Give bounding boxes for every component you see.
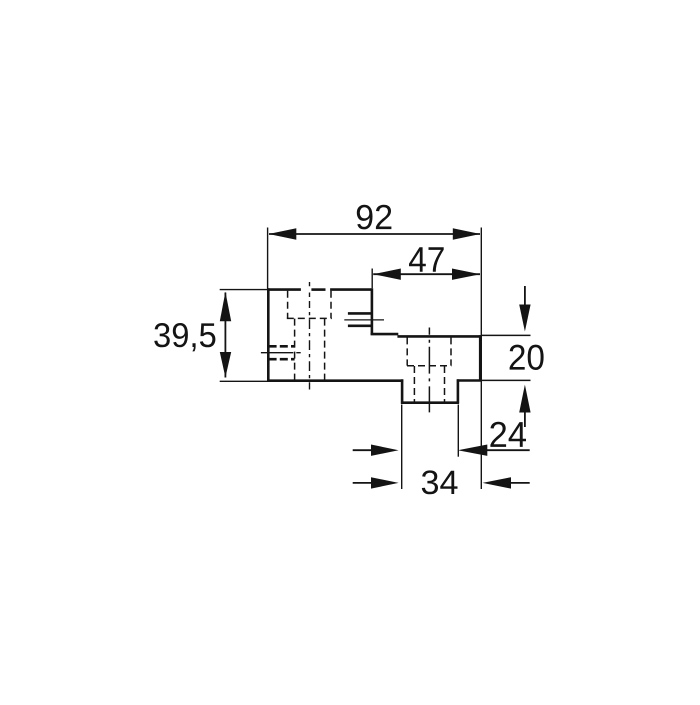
extension line left (92) <box>267 228 269 289</box>
label 20 <box>510 345 544 370</box>
hidden line: cross hole bottom <box>269 358 295 361</box>
body outline: boss left vertical <box>401 379 404 404</box>
body outline: boss right vertical <box>457 379 460 403</box>
hidden line: hole left <box>294 319 296 380</box>
hidden line: cross hole top <box>269 345 295 348</box>
extension line 39,5 top <box>220 289 267 291</box>
dimension 34 right arrow <box>510 482 530 484</box>
dimension line 39,5 <box>224 293 226 378</box>
extension line right (92/47/34) <box>480 228 482 490</box>
dimension 34 left arrow <box>353 482 372 484</box>
body outline: left bottom edge <box>267 379 403 382</box>
hidden line: counterbore right <box>330 291 332 318</box>
center line: boss hole <box>428 328 430 413</box>
label 34 <box>422 470 458 494</box>
body outline: step horizontal B <box>397 335 481 338</box>
thread mark center thin <box>344 319 384 321</box>
hidden line: hole right <box>324 319 326 380</box>
arrowhead 39,5 down <box>220 352 231 377</box>
hidden line: boss hole left <box>413 366 415 402</box>
dimension line 47 <box>373 273 480 275</box>
body outline: step horizontal A <box>371 333 399 336</box>
arrowhead 92 left <box>269 228 297 239</box>
arrow 20 up (below) <box>524 412 526 428</box>
body outline: top edge segment 2 <box>311 288 325 291</box>
label 47 <box>409 247 444 271</box>
hidden line: counterbore left <box>287 291 289 318</box>
arrowhead 47 left <box>373 269 401 280</box>
dimension 24 right arrow <box>487 449 530 451</box>
arrowhead 47 right <box>452 269 480 280</box>
extension line 24/34 left (x=401.7) <box>401 405 403 490</box>
dimension 24 left arrow <box>353 449 372 451</box>
body outline: step vertical <box>371 288 374 335</box>
thread mark upper <box>348 312 373 315</box>
arrowhead 39,5 up <box>220 292 231 322</box>
label 24 <box>490 422 526 447</box>
body outline: right edge <box>479 335 482 381</box>
hidden line: counterbore bottom <box>287 317 332 319</box>
center line: cross hole <box>261 352 301 354</box>
extension line 20 top <box>482 334 531 336</box>
arrow 20 down (above) <box>524 286 526 306</box>
hidden line: boss hole right <box>444 366 446 402</box>
body outline: right bottom edge <box>457 379 482 382</box>
arrowhead 92 right <box>453 228 481 239</box>
hidden line: boss counterbore right <box>450 337 452 365</box>
body outline: left edge <box>267 288 270 381</box>
hidden line: boss counterbore bottom <box>407 365 451 367</box>
extension line 47 left <box>371 269 373 289</box>
dimension line 92 <box>269 233 480 235</box>
body outline: top edge segment 1 <box>267 288 301 291</box>
extension line 39,5 bottom <box>220 380 268 382</box>
extension line 20 bottom <box>482 379 531 381</box>
label 39,5 <box>154 323 215 351</box>
thread mark lower <box>348 324 373 327</box>
body outline: top edge segment 3 <box>330 288 373 291</box>
extension line 24 right (x=458.3) <box>457 405 459 457</box>
body outline: boss bottom <box>401 401 459 404</box>
center line: vertical hole <box>309 282 311 390</box>
hidden line: boss counterbore left <box>406 337 408 365</box>
label 92 <box>357 205 392 230</box>
